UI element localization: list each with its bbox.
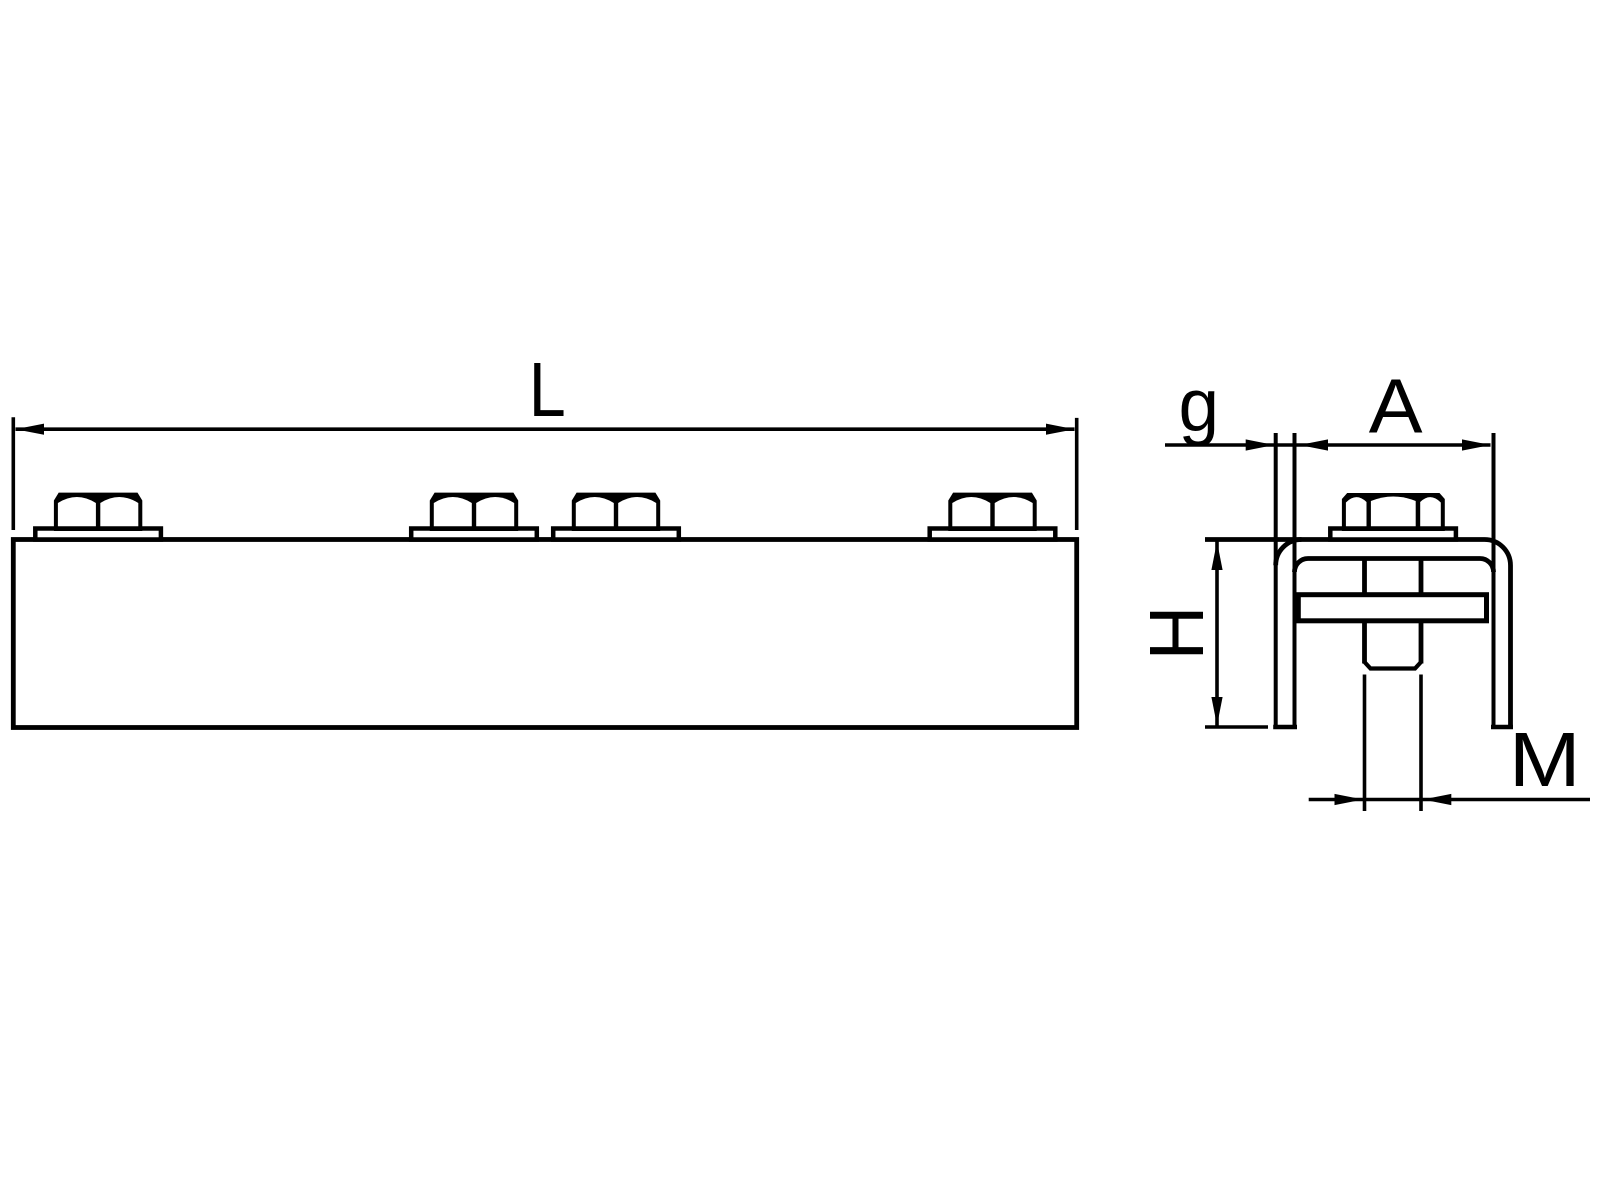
channel inner top <box>1308 556 1480 561</box>
channel right leg inner wall + A extension <box>1492 433 1496 727</box>
dimension H bottom extension line <box>1205 725 1268 729</box>
dimension L extension line left <box>12 417 16 530</box>
dimension H arrow up <box>1211 542 1222 571</box>
svg-text:L: L <box>529 347 566 433</box>
bolt B2 (side view) <box>411 493 537 540</box>
dimension M line <box>1309 798 1590 802</box>
dimension L extension line right <box>1075 418 1079 530</box>
bolt B1 (side view) <box>35 493 161 540</box>
channel inner right corner <box>1480 559 1494 573</box>
channel profile (end view): outer top <box>1205 537 1485 542</box>
dimension g arrow (points right at left wall) <box>1246 439 1275 450</box>
dimension g/A shared arrow (points left) <box>1300 439 1329 450</box>
svg-text:A: A <box>1369 363 1423 449</box>
svg-text:H: H <box>1134 606 1220 661</box>
dimension M extension line left <box>1363 675 1367 812</box>
dimension A arrow (points right) <box>1462 439 1491 450</box>
dimension g+A line <box>1165 443 1491 447</box>
bolt B3 (side view) <box>553 493 679 540</box>
bolt head (end view) <box>1342 493 1445 531</box>
channel inner left corner <box>1295 559 1309 573</box>
dimension L arrow left <box>16 424 45 435</box>
dimension H line <box>1215 541 1219 726</box>
channel outer left corner <box>1276 540 1302 566</box>
bolt B4 (side view) <box>930 493 1056 540</box>
clamp bar inside channel <box>1298 595 1486 621</box>
dimension H arrow down <box>1211 697 1222 726</box>
washer (end view) <box>1330 529 1456 540</box>
channel left leg outer wall + g extension <box>1274 433 1278 727</box>
dimension M extension line right <box>1419 675 1423 812</box>
channel left leg bottom cap <box>1273 725 1297 730</box>
dimension M arrow left (points right) <box>1335 794 1364 805</box>
svg-text:M: M <box>1509 717 1581 803</box>
bolt shaft (end view) <box>1365 559 1422 669</box>
channel right leg outer wall <box>1508 566 1513 728</box>
dimension L line <box>16 427 1075 431</box>
channel left leg inner wall + g extension <box>1293 433 1297 727</box>
channel right leg bottom cap <box>1491 725 1513 730</box>
rail body (side view) <box>13 540 1076 728</box>
dimension L arrow right <box>1046 424 1075 435</box>
dimension M arrow right (points left) <box>1423 794 1452 805</box>
channel outer right corner <box>1485 540 1511 566</box>
svg-text:g: g <box>1179 363 1220 447</box>
